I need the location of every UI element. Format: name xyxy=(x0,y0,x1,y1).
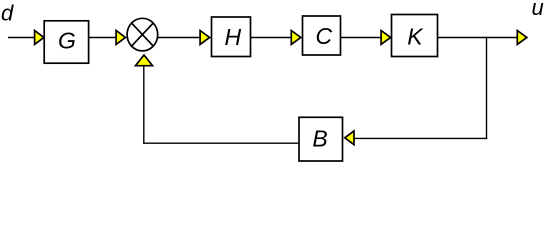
wire H to arrow xyxy=(251,37,292,39)
block C xyxy=(303,16,341,55)
summing junction circle xyxy=(127,18,158,51)
wire summing junction to arrow xyxy=(158,37,200,39)
svg-text:G: G xyxy=(58,27,76,53)
arrowhead into G xyxy=(35,31,44,45)
svg-text:H: H xyxy=(224,24,241,50)
block B xyxy=(299,117,343,161)
svg-text:K: K xyxy=(407,24,424,50)
summing junction X stroke 2 xyxy=(132,23,154,46)
arrowhead into K xyxy=(381,31,391,45)
arrowhead up into summing junction xyxy=(136,55,153,66)
svg-text:C: C xyxy=(315,23,332,49)
wire feedback riser left xyxy=(143,66,145,144)
arrowhead into B xyxy=(345,131,354,145)
block G xyxy=(44,21,88,63)
wire feedback riser right xyxy=(486,37,488,139)
wire input to arrow xyxy=(8,37,35,39)
arrowhead into C xyxy=(291,31,301,45)
wire C to arrow xyxy=(341,37,382,39)
wire G to arrow xyxy=(89,37,117,39)
summing junction X stroke 1 xyxy=(132,23,154,46)
arrowhead into summing junction xyxy=(116,31,125,45)
arrowhead into H xyxy=(200,31,210,45)
svg-text:d: d xyxy=(1,1,14,26)
svg-text:u: u xyxy=(532,0,544,20)
wire feedback left horizontal xyxy=(143,142,299,144)
arrowhead output u xyxy=(517,31,527,45)
block K xyxy=(392,15,438,57)
block H xyxy=(212,17,251,57)
wire K to output arrow xyxy=(438,37,518,39)
wire feedback right horizontal xyxy=(354,137,487,139)
svg-text:B: B xyxy=(312,125,327,151)
